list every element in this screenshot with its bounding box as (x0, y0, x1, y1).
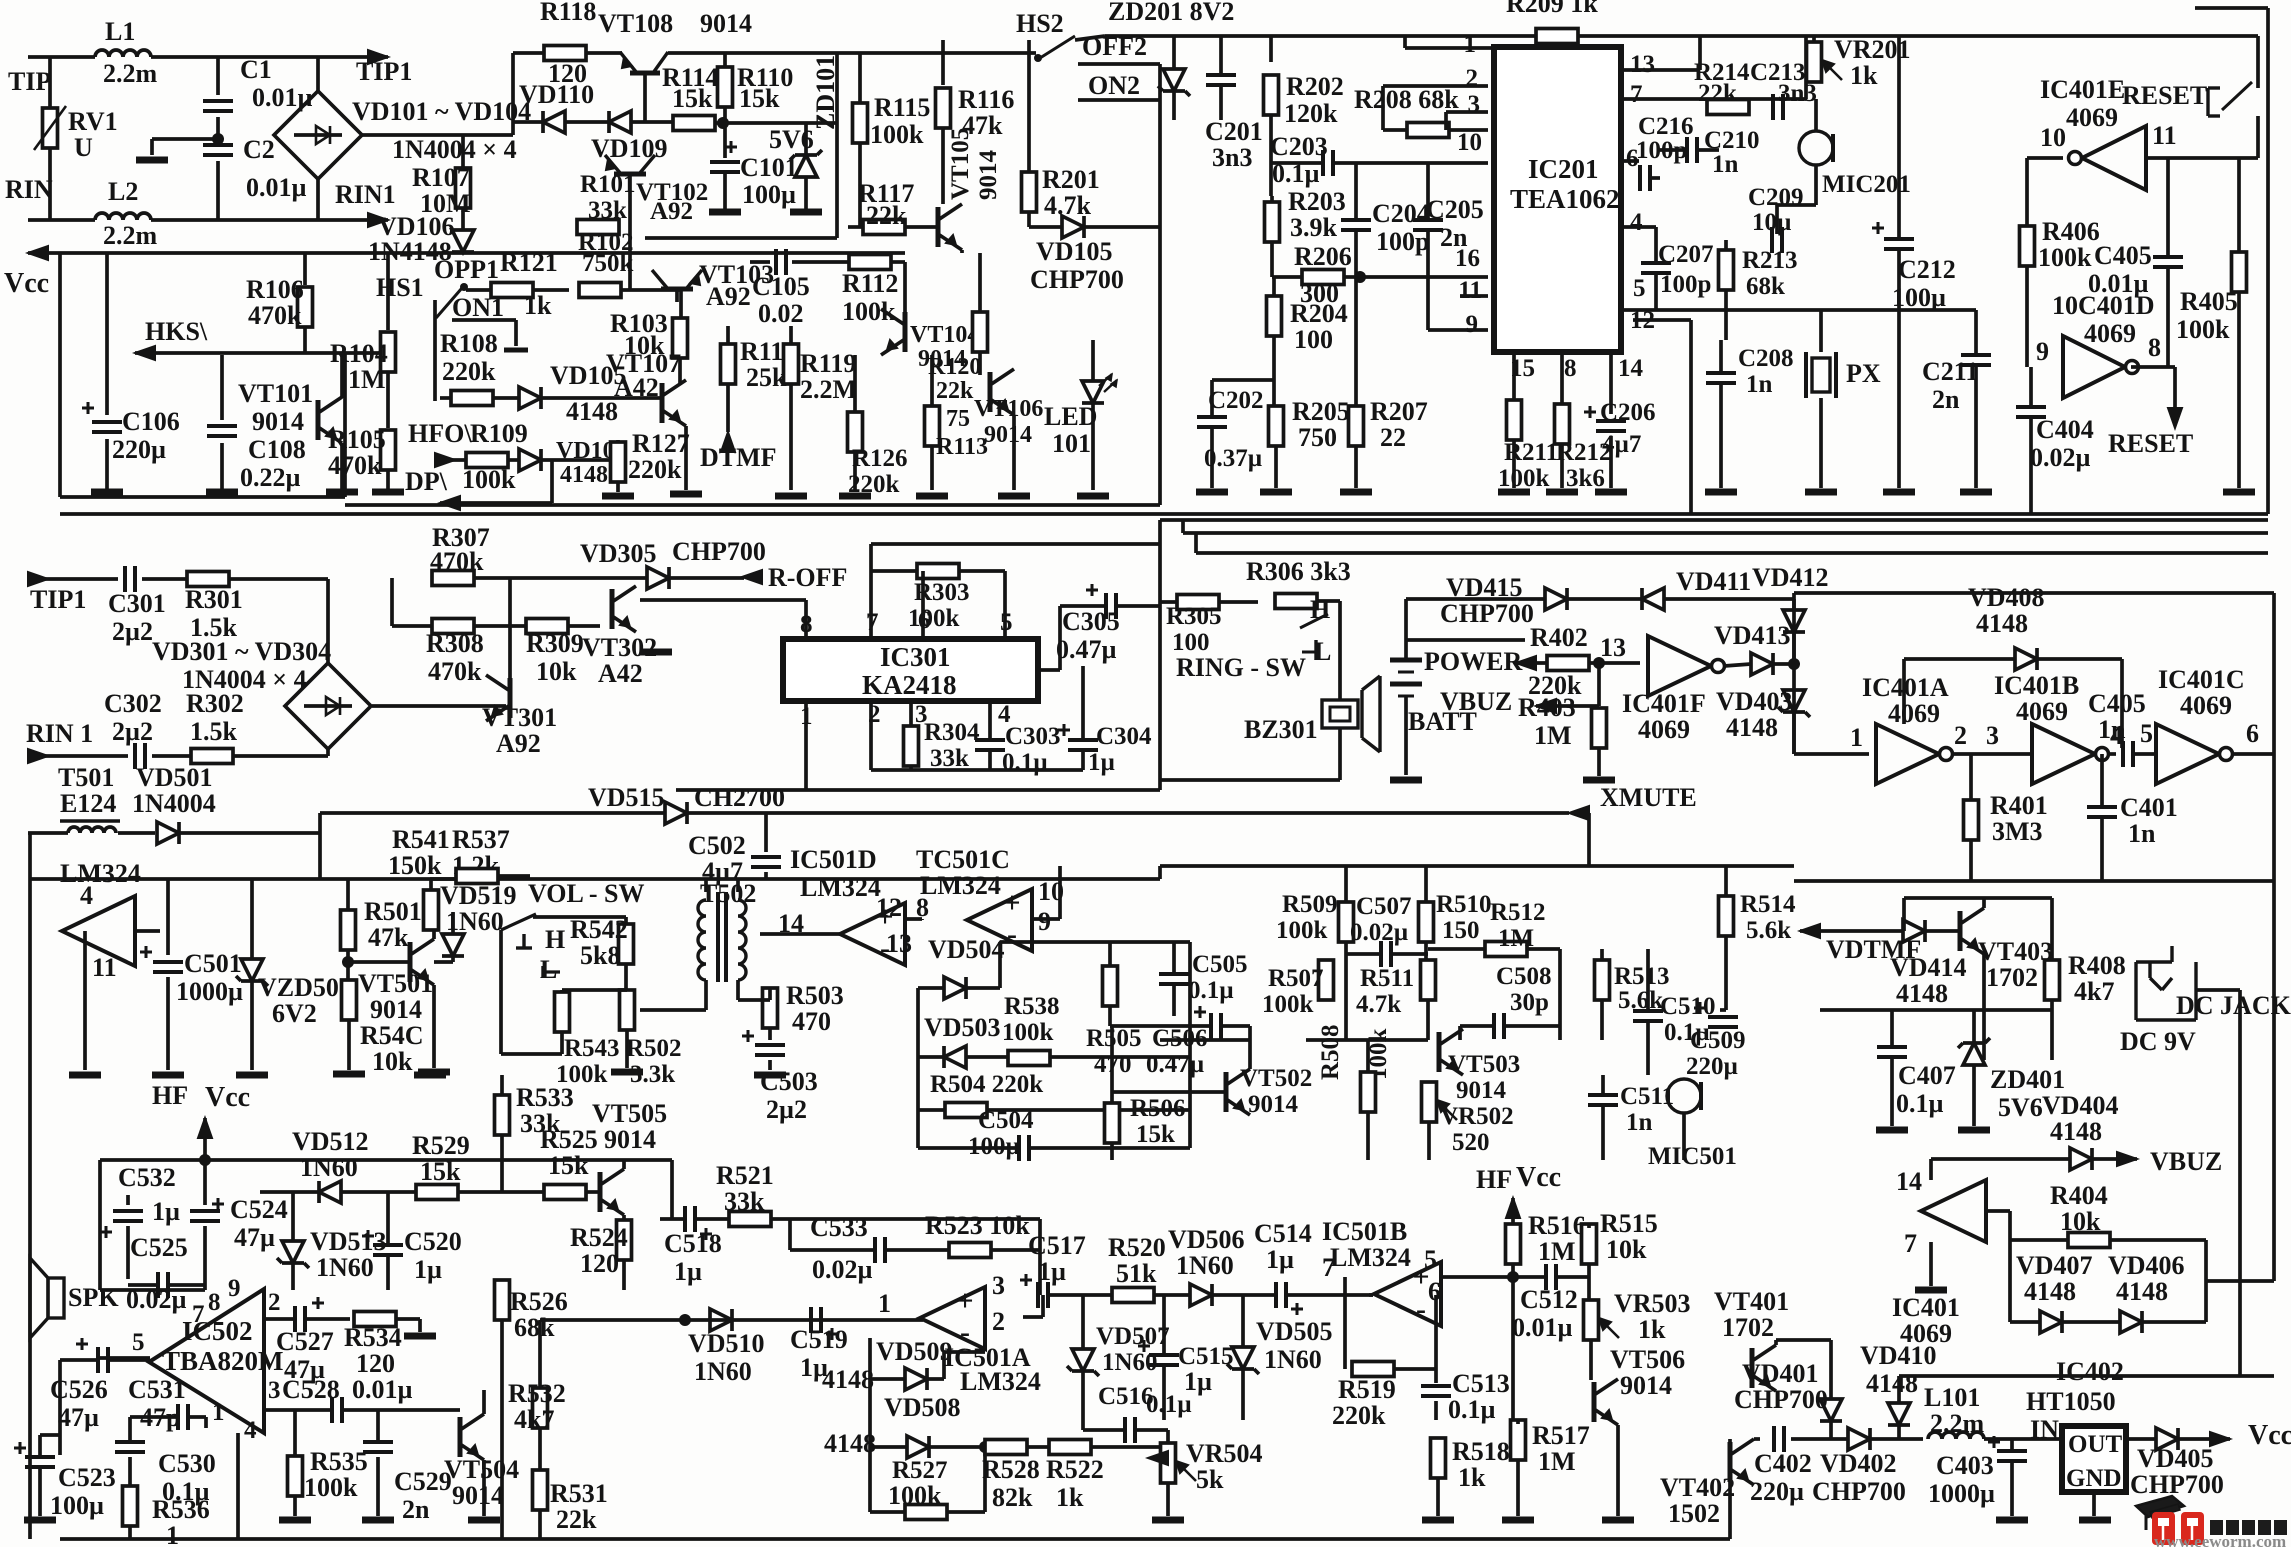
ground (91, 489, 123, 496)
svg-text:R206: R206 (1294, 242, 1352, 271)
zener VD513 (282, 1241, 304, 1263)
wire (1601, 1105, 1605, 1160)
resistor R509 (1339, 902, 1354, 942)
ground (1705, 489, 1737, 496)
wire (1505, 1024, 1560, 1028)
resistor R536 (123, 1486, 138, 1526)
transistor VT506 (1592, 1382, 1597, 1422)
svg-text:0.01µ: 0.01µ (246, 173, 307, 202)
svg-text:1: 1 (878, 1289, 891, 1318)
svg-text:VD402: VD402 (1820, 1449, 1897, 1478)
svg-text:C405: C405 (2094, 241, 2152, 270)
svg-text:RESET: RESET (2122, 81, 2207, 110)
svg-text:R101: R101 (580, 171, 636, 198)
wire (624, 917, 628, 924)
svg-text:4k7: 4k7 (514, 1405, 554, 1434)
wire (58, 1360, 62, 1455)
wire (1511, 1264, 1515, 1277)
wire (2108, 752, 2116, 756)
svg-text:DC 9V: DC 9V (2120, 1027, 2196, 1056)
wire (1083, 1428, 1124, 1432)
svg-text:A42: A42 (598, 659, 643, 688)
capacitor C523 (25, 1455, 55, 1459)
battery POWER (1390, 658, 1422, 663)
wire (723, 54, 727, 67)
node RIN1 arrow2 (28, 749, 48, 763)
wire (1041, 1295, 1045, 1317)
svg-text:VD101 ~ VD104: VD101 ~ VD104 (352, 97, 531, 126)
svg-text:11: 11 (2152, 121, 2177, 150)
svg-text:100k: 100k (1002, 1019, 1054, 1046)
svg-text:47k: 47k (368, 923, 409, 952)
wire (804, 701, 808, 790)
wire (768, 1060, 772, 1070)
wire (760, 932, 843, 936)
wire (1078, 62, 1160, 66)
capacitor C524 (190, 1209, 220, 1213)
wire (959, 569, 1005, 573)
svg-text:OUT: OUT (2068, 1431, 2123, 1458)
svg-text:2n: 2n (1932, 385, 1960, 414)
wire (1597, 663, 1601, 706)
junction input (679, 1314, 691, 1326)
ground (1915, 1287, 1947, 1294)
wire (204, 1417, 208, 1428)
wire (392, 624, 432, 628)
wire (1166, 1430, 1170, 1443)
wire (966, 986, 1000, 990)
svg-text:C210: C210 (1704, 127, 1760, 154)
wire (60, 1537, 1730, 1541)
diode VD109 (609, 111, 631, 133)
wire (1511, 1277, 1515, 1424)
wire (804, 178, 808, 209)
svg-text:1n: 1n (2098, 715, 2126, 744)
resistor R525 (544, 1185, 586, 1200)
svg-text:CHP700: CHP700 (672, 537, 766, 566)
wire (482, 1460, 486, 1516)
svg-text:A92: A92 (496, 729, 541, 758)
wire (1369, 1293, 1373, 1297)
wire (28, 55, 95, 59)
wire (250, 981, 254, 1070)
svg-text:5: 5 (1424, 1245, 1437, 1274)
capacitor C405 osc (2121, 741, 2125, 767)
svg-text:1µ: 1µ (1266, 1245, 1294, 1274)
capacitor C511 (1588, 1093, 1618, 1097)
wire (533, 915, 626, 919)
wire (1383, 84, 1488, 88)
wire (538, 1510, 542, 1539)
svg-text:IC301: IC301 (880, 642, 951, 672)
svg-text:R308: R308 (426, 629, 484, 658)
ground (136, 157, 168, 164)
svg-text:0.1µ: 0.1µ (1002, 749, 1048, 776)
svg-text:2µ2: 2µ2 (766, 1095, 807, 1124)
wire (1091, 403, 1095, 490)
wire (723, 121, 837, 125)
wire (1512, 440, 1516, 488)
ground (754, 1072, 786, 1079)
svg-text:VD305: VD305 (580, 539, 657, 568)
ground (1152, 1517, 1184, 1524)
capacitor C531 (176, 1404, 180, 1430)
wire (2092, 1492, 2096, 1516)
node RESET out arrow (2168, 408, 2182, 428)
wire (429, 879, 433, 890)
diode VD405 (2156, 1428, 2178, 1450)
svg-text:9: 9 (2036, 337, 2049, 366)
capacitor C506 (1209, 1013, 1213, 1039)
wire (1219, 600, 1258, 604)
svg-text:1µ: 1µ (1184, 1367, 1212, 1396)
diode VD519 (442, 934, 464, 956)
wire (493, 396, 519, 400)
svg-text:7: 7 (1630, 81, 1643, 108)
ground (279, 1517, 311, 1524)
junction VD508 out (979, 1441, 991, 1453)
wire (944, 1350, 985, 1354)
svg-text:220µ: 220µ (1686, 1053, 1738, 1080)
wire (586, 1190, 600, 1194)
wire (376, 1457, 380, 1516)
resistor R527 (905, 1505, 947, 1520)
ground (326, 489, 358, 496)
svg-text:R514: R514 (1740, 891, 1796, 918)
svg-text:4µ7: 4µ7 (702, 857, 743, 886)
wire (568, 624, 600, 628)
diode VD508 (907, 1436, 929, 1458)
svg-text:9014: 9014 (370, 995, 422, 1024)
wire (983, 1447, 987, 1512)
svg-text:R527: R527 (892, 1457, 948, 1484)
svg-text:-: - (1416, 1292, 1426, 1325)
wire (1904, 657, 2015, 661)
svg-text:10k: 10k (536, 657, 577, 686)
wire (440, 501, 552, 505)
svg-text:4.7k: 4.7k (1356, 991, 1401, 1018)
wire (48, 148, 52, 220)
svg-text:LED: LED (1044, 402, 1097, 431)
capacitor C301 (123, 566, 127, 592)
node R-OFF arrow (742, 570, 762, 584)
svg-text:2µ2: 2µ2 (112, 717, 153, 746)
microphone MIC501 (1667, 1079, 1701, 1113)
capacitor C503 (755, 1043, 785, 1047)
wire (1633, 318, 1691, 322)
svg-text:R108: R108 (440, 329, 498, 358)
wire (316, 179, 320, 220)
capacitor C401 (2087, 805, 2117, 809)
svg-text:1: 1 (166, 1521, 179, 1547)
svg-text:750: 750 (1298, 423, 1337, 452)
capacitor C509 (1708, 1015, 1738, 1019)
svg-text:R118: R118 (540, 0, 596, 26)
wire (1117, 604, 1160, 608)
wire (2029, 417, 2033, 514)
svg-text:VT503: VT503 (1448, 1051, 1520, 1078)
svg-text:VD509: VD509 (876, 1337, 953, 1366)
wire (1078, 98, 1160, 102)
diode VD107 (519, 449, 541, 471)
wire (909, 701, 913, 726)
svg-text:R203: R203 (1288, 187, 1346, 216)
ground (152, 1072, 184, 1079)
svg-text:470: 470 (792, 1007, 831, 1036)
capacitor C508 (1492, 1013, 1496, 1039)
wire (871, 569, 917, 573)
inductor L101 (1928, 1432, 1984, 1439)
svg-text:E124: E124 (60, 789, 116, 818)
wire (538, 1428, 542, 1470)
svg-text:LM324: LM324 (800, 873, 881, 902)
ground (333, 1071, 365, 1078)
wire (264, 1317, 294, 1321)
wire (390, 576, 394, 580)
wire (1426, 1000, 1430, 1040)
wire (1023, 1315, 1043, 1319)
wire (930, 355, 934, 406)
wire (1271, 161, 1322, 165)
svg-text:100k: 100k (1498, 465, 1550, 492)
wire (1366, 1112, 1370, 1160)
wire (768, 988, 772, 1000)
wire (1162, 1295, 1166, 1355)
ground (1498, 489, 1530, 496)
resistor R408 (2045, 960, 2060, 1000)
svg-text:VD510: VD510 (688, 1329, 765, 1358)
svg-text:H: H (1310, 595, 1330, 624)
svg-text:15k: 15k (420, 1157, 461, 1186)
svg-text:HS1: HS1 (376, 273, 424, 302)
svg-text:51k: 51k (1116, 1259, 1157, 1288)
svg-text:RIN1: RIN1 (335, 180, 396, 209)
wire (40, 1433, 60, 1437)
wire (2008, 1211, 2012, 1240)
svg-text:100k: 100k (888, 1481, 942, 1510)
svg-text:R209 1k: R209 1k (1506, 0, 1598, 18)
wire (1032, 917, 1060, 921)
svg-text:100: 100 (1294, 325, 1333, 354)
wire (1664, 597, 1794, 601)
wire (2272, 881, 2276, 1281)
resistor R208 (1407, 123, 1449, 138)
wire (764, 872, 768, 879)
resistor R526 (495, 1280, 510, 1320)
svg-text:R524: R524 (570, 1223, 628, 1252)
svg-text:R501: R501 (364, 897, 422, 926)
svg-text:4069: 4069 (2016, 697, 2068, 726)
svg-text:9014: 9014 (1620, 1371, 1672, 1400)
wire (151, 55, 388, 59)
svg-text:4069: 4069 (2084, 319, 2136, 348)
wire (2256, 36, 2260, 88)
svg-text:R534: R534 (344, 1323, 402, 1352)
svg-text:IC402: IC402 (2056, 1357, 2124, 1386)
svg-text:POWER: POWER (1424, 647, 1522, 676)
svg-text:22k: 22k (556, 1505, 597, 1534)
resistor R535 (288, 1456, 303, 1496)
wire (1929, 1159, 1933, 1180)
resistor R520 (1112, 1288, 1154, 1303)
inverter IC401F bubble (1712, 660, 1725, 673)
capacitor C206 (1596, 419, 1626, 423)
wire (723, 123, 727, 158)
svg-text:C212: C212 (1898, 255, 1956, 284)
wire (2146, 156, 2258, 160)
svg-text:L1: L1 (105, 17, 135, 46)
svg-text:C204: C204 (1372, 199, 1430, 228)
wire (1210, 380, 1214, 417)
transistor VT503 (1437, 1032, 1442, 1072)
wire (675, 289, 679, 302)
wire (696, 1217, 729, 1221)
resistor R404 (2068, 1233, 2110, 1248)
junction2 (1788, 658, 1800, 670)
svg-text:C216: C216 (1638, 113, 1694, 140)
connector DC JACK (2134, 962, 2137, 1020)
svg-text:VD414: VD414 (1890, 953, 1967, 982)
wire (128, 1283, 157, 1287)
svg-text:SPK: SPK (68, 1283, 119, 1312)
wire (1038, 1219, 1042, 1295)
ground (1960, 489, 1992, 496)
ground (1546, 489, 1578, 496)
svg-text:13: 13 (1630, 51, 1655, 78)
capacitor C203 (1321, 150, 1325, 176)
diode VD110 (543, 111, 565, 133)
resistor R406 (2020, 226, 2035, 266)
wire (1536, 704, 1599, 708)
wire (343, 1408, 460, 1412)
wire (1460, 294, 1488, 298)
svg-text:IC501B: IC501B (1322, 1217, 1407, 1246)
wire (1434, 1295, 1438, 1369)
svg-text:C518: C518 (664, 1229, 722, 1258)
wire (1814, 99, 1818, 131)
wire (1136, 1428, 1168, 1432)
svg-text:R543: R543 (564, 1035, 620, 1062)
wire (60, 495, 345, 499)
svg-text:CH2700: CH2700 (694, 783, 785, 812)
svg-text:www.eeworm.com: www.eeworm.com (2154, 1532, 2286, 1547)
resistor R303 (917, 564, 959, 579)
wire (871, 542, 1160, 546)
svg-text:1N4004 × 4: 1N4004 × 4 (392, 135, 517, 164)
resistor R308 (432, 619, 474, 634)
transistor VT504 (458, 1417, 463, 1457)
zener ZD201 diode (1163, 69, 1185, 91)
svg-text:1M: 1M (1534, 721, 1572, 750)
svg-text:4: 4 (80, 881, 93, 910)
svg-text:IC401A: IC401A (1862, 673, 1949, 702)
svg-text:11: 11 (92, 953, 117, 982)
node DTMF arrow (721, 432, 735, 452)
ground (1958, 1127, 1990, 1134)
svg-text:9014: 9014 (604, 1125, 656, 1154)
wire (1160, 600, 1177, 604)
wire (998, 942, 1002, 988)
wire (2238, 1130, 2242, 1376)
svg-text:KA2418: KA2418 (862, 670, 957, 700)
svg-text:2.2m: 2.2m (103, 59, 158, 88)
inverter IC401F (1648, 636, 1711, 696)
wire (452, 318, 516, 322)
capacitor C507 (1379, 941, 1383, 967)
wire (1406, 638, 1525, 642)
capacitor C525 (156, 1272, 160, 1298)
svg-text:TIP: TIP (8, 67, 51, 96)
wire (2178, 1437, 2230, 1441)
wire (1792, 593, 1796, 754)
svg-text:OPP1: OPP1 (434, 255, 499, 284)
wire (868, 1447, 872, 1512)
wire (1557, 1275, 1589, 1279)
svg-text:C525: C525 (130, 1233, 188, 1262)
wire (1897, 1376, 1901, 1403)
svg-text:0.1µ: 0.1µ (1896, 1089, 1944, 1118)
wire (1344, 866, 1348, 902)
resistor R203 (1265, 202, 1280, 242)
svg-text:MIC501: MIC501 (1648, 1143, 1737, 1170)
svg-text:C527: C527 (276, 1327, 334, 1356)
node Vcc b arrow (1506, 1198, 1520, 1218)
wire (869, 571, 873, 639)
wire (1984, 1437, 2066, 1441)
wire (870, 1510, 905, 1514)
svg-text:C403: C403 (1936, 1451, 1994, 1480)
buffer IC401 section (1921, 1180, 1986, 1242)
wire (916, 988, 920, 1148)
wire (500, 1320, 504, 1539)
wire (1354, 230, 1358, 277)
wire (1597, 748, 1601, 776)
wire (1081, 750, 1085, 770)
capacitor C533 (873, 1237, 877, 1263)
wire (1724, 664, 1751, 666)
svg-text:C503: C503 (760, 1067, 818, 1096)
transformer T502 right winding (738, 900, 746, 980)
svg-text:HT1050: HT1050 (2026, 1387, 2116, 1416)
wire (1344, 942, 1348, 954)
svg-text:CHP700: CHP700 (1030, 265, 1124, 294)
wire (541, 396, 660, 400)
resistor R114 (673, 116, 715, 131)
wire (105, 253, 109, 415)
ground (468, 1517, 500, 1524)
wire (28, 831, 68, 835)
wire (2256, 116, 2260, 158)
zener ZD101 diode (795, 155, 817, 177)
resistor R401 (1964, 800, 1979, 840)
op-amp TC501C (967, 889, 1032, 951)
svg-text:1702: 1702 (1986, 963, 2038, 992)
resistor R104 (381, 332, 396, 372)
capacitor C303 (975, 738, 1005, 742)
svg-text:14: 14 (1618, 355, 1644, 382)
svg-text:C528: C528 (282, 1375, 340, 1404)
svg-text:R115: R115 (874, 93, 930, 122)
wire (28, 251, 905, 255)
svg-text:R508: R508 (1317, 1024, 1344, 1080)
wire (1212, 378, 1274, 382)
wire (1567, 597, 1642, 601)
wire (513, 51, 548, 55)
svg-text:IC401: IC401 (1892, 1293, 1960, 1322)
wire (1829, 1421, 1833, 1439)
switch RESET (2206, 88, 2209, 116)
svg-text:33k: 33k (930, 745, 969, 772)
